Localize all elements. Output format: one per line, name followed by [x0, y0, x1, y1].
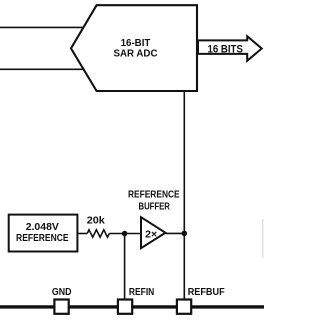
wire reference box to resistor	[78, 233, 87, 235]
svg-text:20k: 20k	[87, 215, 105, 227]
junction node REFIN	[122, 231, 128, 237]
svg-text:REFBUF: REFBUF	[188, 286, 225, 298]
svg-text:16 BITS: 16 BITS	[208, 43, 243, 55]
svg-text:REFIN: REFIN	[129, 286, 154, 298]
ADC block 16-BIT SAR ADC	[71, 5, 197, 91]
resistor 20k	[87, 230, 109, 237]
reference box 2.048V REFERENCE	[9, 215, 78, 252]
svg-text:REFERENCE: REFERENCE	[128, 189, 180, 201]
svg-text:2×: 2×	[145, 229, 157, 241]
pad REFIN	[118, 300, 132, 314]
svg-text:REFERENCE: REFERENCE	[16, 232, 69, 244]
wire buffer output	[165, 232, 184, 234]
junction node REFBUF	[182, 231, 188, 237]
svg-text:GND: GND	[52, 286, 72, 298]
package bottom rail	[0, 305, 264, 308]
pad REFBUF	[177, 300, 191, 314]
bus arrow 16 BITS output	[198, 36, 262, 61]
svg-text:SAR ADC: SAR ADC	[114, 48, 158, 60]
wire IN- analog input	[0, 68, 85, 70]
wire REFBUF vertical from ADC to pad	[183, 91, 185, 299]
wire resistor to junction	[109, 233, 141, 235]
buffer amp 2x triangle	[141, 217, 165, 248]
wire IN+ analog input	[0, 26, 85, 28]
svg-text:BUFFER: BUFFER	[139, 200, 171, 212]
faint edge wire right	[262, 219, 264, 258]
wire REFIN vertical down to pad	[124, 234, 126, 300]
pad GND	[54, 300, 68, 314]
